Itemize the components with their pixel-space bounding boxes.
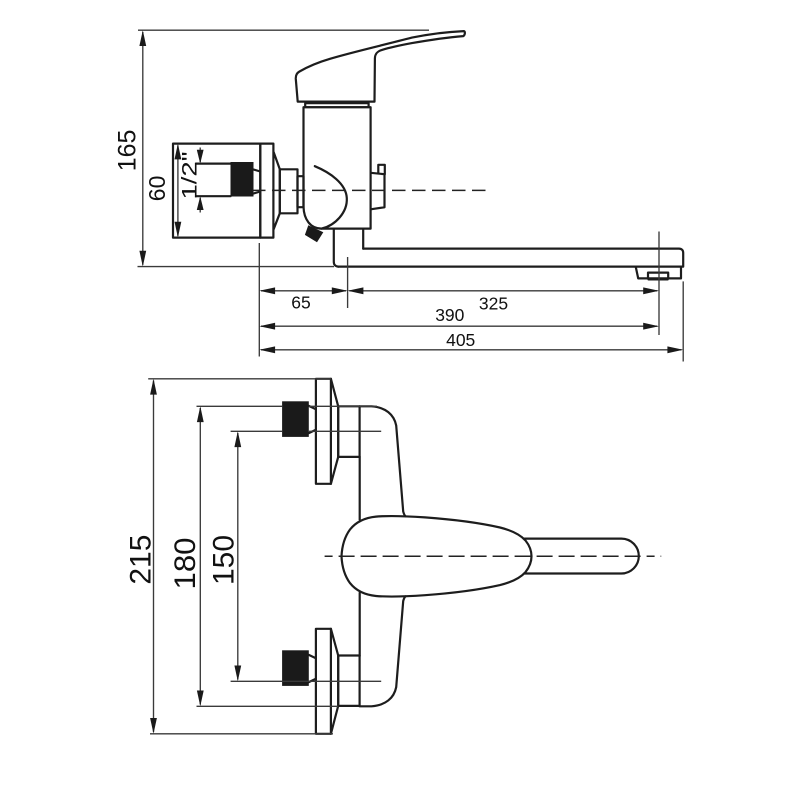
connection nut — [280, 169, 298, 213]
svg-text:1/2": 1/2" — [179, 152, 202, 200]
svg-text:215: 215 — [125, 535, 158, 585]
dimension line 325 — [349, 290, 657, 292]
dimension line 60 — [177, 145, 179, 235]
aerator — [636, 267, 681, 279]
centerline, side view — [252, 189, 487, 191]
extension line 150 top / pipe bottom — [231, 430, 382, 432]
dimension line 165 — [142, 32, 144, 265]
svg-text:390: 390 — [435, 305, 464, 325]
lower flange plate (top view) — [316, 629, 331, 734]
svg-text:165: 165 — [114, 130, 142, 172]
black fills, top view — [282, 401, 309, 686]
arrow 165 down — [139, 251, 146, 267]
arrow 325 right — [643, 287, 659, 294]
centerline — [252, 189, 487, 191]
svg-text:405: 405 — [446, 330, 475, 350]
centerline — [325, 555, 662, 557]
aerator extension line — [658, 232, 660, 336]
shower outlet cap — [378, 165, 385, 174]
upper flange cone — [331, 379, 338, 484]
body mating plane line upper — [359, 457, 361, 520]
arrow 150 up — [234, 431, 241, 447]
dimension line 65 — [261, 290, 346, 292]
black fills, side view — [231, 162, 324, 242]
dimension line 215 — [153, 381, 155, 733]
arrow 165 up — [139, 30, 146, 46]
arrow 1/2 up — [197, 196, 204, 210]
spout sheath curve — [315, 166, 347, 228]
extension line 215 bottom — [150, 733, 333, 735]
body upper arm — [360, 406, 406, 516]
arrow 215 up — [150, 379, 157, 395]
extension line 150 bottom — [231, 680, 382, 682]
body mating plane line lower — [359, 593, 361, 656]
centerline, top view — [325, 555, 662, 557]
diverter knob (black) — [305, 225, 323, 242]
arrow 325 left — [348, 287, 364, 294]
arrow 65 right — [332, 287, 348, 294]
svg-text:180: 180 — [169, 538, 202, 590]
wall flange plate (side) — [173, 144, 260, 238]
lower flange cone — [331, 629, 338, 734]
dimension line 1/2 bottom — [199, 198, 201, 213]
pipe-to-flange taper — [254, 170, 261, 194]
connector neck — [298, 176, 304, 207]
lower thread block — [282, 650, 309, 686]
pivot extension line — [347, 257, 349, 308]
flange cone taper — [274, 152, 280, 229]
arrowheads top view — [150, 379, 241, 734]
arrow 180 up — [197, 406, 204, 422]
lower pipe taper — [309, 655, 316, 682]
extension line 180 bottom — [197, 705, 339, 707]
spout-end extension line — [682, 281, 684, 361]
dimension line 150 — [237, 433, 239, 680]
arrow 150 down — [234, 666, 241, 682]
arrow 215 down — [150, 718, 157, 734]
spout tube — [339, 249, 684, 267]
dimension line 405 — [261, 349, 682, 351]
svg-text:325: 325 — [479, 294, 508, 314]
body lower arm — [360, 596, 406, 706]
arrow 60 up — [175, 144, 182, 160]
1/2 inch thread block (side) — [231, 162, 254, 197]
upper flange plate (top view) — [316, 379, 331, 484]
svg-text:150: 150 — [207, 535, 240, 585]
arrowheads side view — [139, 30, 683, 353]
handle dome (top view) — [342, 516, 532, 597]
dimension line 180 — [199, 408, 201, 705]
handle lever (side) — [296, 31, 465, 102]
svg-text:60: 60 — [144, 176, 170, 202]
dimension line 390 — [261, 325, 657, 327]
1/2 inch pipe outline — [196, 164, 231, 197]
extension line top (165) — [138, 29, 429, 31]
arrow 1/2 down — [197, 150, 204, 164]
shower outlet boss — [371, 173, 385, 210]
upper pipe taper — [309, 406, 316, 433]
wall extension line — [258, 243, 260, 357]
arrow 405 right — [667, 346, 683, 353]
arrow 65 left — [259, 287, 275, 294]
arrow 390 right — [643, 323, 659, 330]
lower nut — [338, 656, 359, 706]
aerator insert — [648, 273, 668, 280]
dimension line 1/2 top — [199, 148, 201, 163]
faucet body (side) — [304, 107, 371, 228]
extension line 215 top — [148, 378, 331, 380]
collar ring under handle — [305, 103, 368, 107]
arrow 390 left — [259, 323, 275, 330]
arrow 180 down — [197, 691, 204, 707]
extension line bottom (165) — [138, 266, 335, 268]
extension line 180 top / pipe top — [197, 405, 378, 407]
spout hub — [334, 229, 363, 267]
upper nut — [338, 406, 359, 457]
upper thread block — [282, 401, 309, 437]
labels top view — [125, 535, 241, 590]
arrow 405 left — [259, 346, 275, 353]
arrow 60 down — [175, 222, 182, 238]
labels side view — [114, 130, 508, 350]
svg-text:65: 65 — [291, 293, 310, 313]
wall flange ring (side) — [260, 144, 273, 238]
handle grip bar (top view) — [525, 539, 639, 574]
